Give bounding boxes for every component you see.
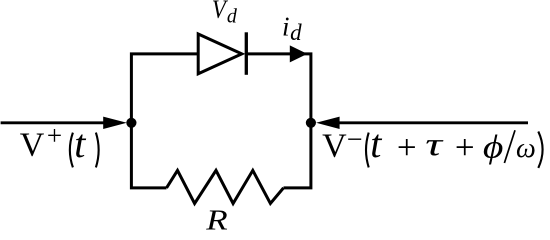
svg-text:−: − [347,125,363,156]
svg-text:t: t [370,121,382,166]
diode D1 cathode bar [245,32,248,75]
svg-text:d: d [227,5,238,27]
svg-text:R: R [205,203,228,235]
svg-text:τ: τ [425,125,444,162]
svg-text:ω: ω [516,133,536,164]
svg-text:t: t [74,121,86,166]
svg-text:+: + [47,120,62,150]
svg-text:V: V [20,126,45,163]
wire: loop left side (top-left corner + bottom-left corner) [131,54,198,188]
arrowhead on right lead pointing left into node B [316,117,340,129]
resistor R zigzag [167,170,284,203]
current arrow i_d on top wire pointing right [290,45,308,62]
svg-text:+: + [455,128,475,167]
svg-text:ϕ: ϕ [483,128,503,164]
wire: top-right segment from cathode to corner, down to node B [246,54,311,188]
svg-text:V: V [322,127,347,164]
node A junction dot (left) [126,118,136,128]
wire: left lead horizontal [1,121,107,124]
svg-text:i: i [282,11,290,41]
node B junction dot (right) [306,118,316,128]
svg-text:d: d [290,20,302,45]
arrowhead on left lead pointing right into node A [103,117,127,129]
wire: right lead horizontal [339,121,528,124]
diode D1 triangle (anode) [198,34,242,74]
svg-text:+: + [397,128,417,167]
